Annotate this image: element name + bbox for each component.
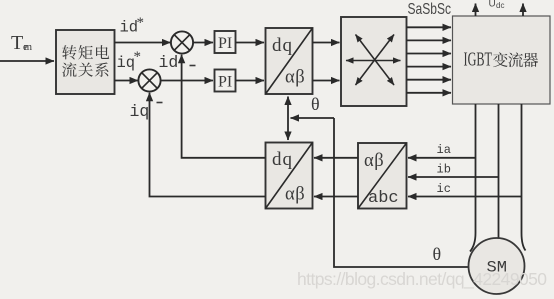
block M1 SVPWM modulator with star arrows	[341, 17, 407, 106]
wire iq feedback from dq block to S2	[150, 93, 266, 197]
wire gate signal 1 SVPWM to IGBT	[407, 26, 452, 28]
svg-text:U: U	[489, 0, 496, 10]
svg-text:SaSbSc: SaSbSc	[408, 1, 452, 18]
summing junction S2 (iq)	[138, 69, 160, 91]
svg-text:abc: abc	[368, 189, 399, 208]
wire dq/ab to SVPWM row1	[313, 42, 340, 44]
minus sign at S2	[157, 102, 163, 104]
svg-text:PI: PI	[218, 35, 232, 52]
block PI2 current regulator	[215, 70, 236, 92]
wire Tem input arrow into torque block	[0, 60, 54, 62]
svg-text:T: T	[11, 32, 23, 54]
wire gate signal 4 SVPWM to IGBT	[407, 66, 452, 68]
svg-text:iq: iq	[117, 54, 136, 72]
wire ic current feedback	[408, 196, 522, 198]
block T2 alpha-beta to dq transform	[266, 143, 313, 209]
block T3 alpha-beta to abc transform	[358, 143, 407, 209]
svg-text:θ: θ	[311, 94, 320, 114]
wire dq/ab to SVPWM row2	[313, 80, 340, 82]
svg-text:ic: ic	[437, 182, 451, 196]
svg-text:ia: ia	[437, 143, 451, 157]
wire theta from motor to dq transforms	[334, 118, 469, 267]
svg-text:αβ: αβ	[285, 68, 305, 88]
wire gate signal 6 SVPWM to IGBT	[407, 92, 452, 94]
wire theta into both dq transforms (double arrow)	[287, 97, 289, 141]
wire ia current feedback	[408, 157, 476, 159]
wire Udc dc-link arrow right	[522, 4, 524, 17]
svg-text:id: id	[159, 53, 179, 72]
wire S2 to PI2	[160, 80, 213, 82]
svg-text:dq: dq	[272, 149, 293, 170]
svg-text:IGBT: IGBT	[464, 50, 493, 71]
block PI1 current regulator	[215, 31, 236, 53]
wire gate signal 3 SVPWM to IGBT	[407, 53, 452, 55]
wire id feedback from dq block to S1	[182, 55, 266, 158]
wire PI1 to dq/ab transform	[236, 42, 265, 44]
block U2 IGBT converter IGBT变流器	[453, 16, 551, 104]
svg-text:PI: PI	[218, 73, 232, 90]
block T1 dq to alpha-beta transform	[266, 28, 313, 94]
block U1 torque-current relation 转矩电流关系	[56, 30, 115, 94]
wire ib current feedback	[408, 176, 499, 178]
wire beta feedback to dq block	[314, 196, 358, 198]
wire Udc dc-link arrow left	[475, 4, 477, 17]
wire phase c IGBT to motor	[522, 104, 526, 251]
svg-text:*: *	[134, 49, 142, 65]
wire phase b IGBT to motor	[498, 104, 500, 239]
svg-text:em: em	[23, 42, 32, 53]
summing junction S1 (id)	[171, 31, 193, 53]
minus sign at S1	[190, 65, 196, 67]
wire gate signal 2 SVPWM to IGBT	[407, 39, 452, 41]
wire PI2 to dq/ab transform	[236, 80, 265, 82]
svg-text:dq: dq	[272, 35, 293, 56]
svg-text:αβ: αβ	[285, 185, 305, 205]
svg-text:https://blog.csdn.net/qq_42249: https://blog.csdn.net/qq_42249050	[297, 269, 547, 290]
svg-text:id: id	[120, 19, 139, 37]
svg-text:αβ: αβ	[364, 151, 384, 171]
svg-text:θ: θ	[433, 244, 442, 264]
wire alpha feedback to dq block	[314, 157, 358, 159]
svg-text:*: *	[137, 15, 145, 31]
wire gate signal 5 SVPWM to IGBT	[407, 79, 452, 81]
svg-text:iq: iq	[130, 102, 150, 121]
motor SM synchronous machine	[469, 238, 525, 294]
wire phase a IGBT to motor	[470, 104, 476, 252]
wire S1 to PI1	[193, 42, 213, 44]
wire iq* from torque block to summing junction	[115, 80, 139, 82]
svg-text:dc: dc	[496, 1, 504, 10]
wire id* from torque block to summing junction	[115, 42, 171, 44]
svg-text:ib: ib	[437, 163, 451, 177]
wire theta horizontal into double arrow	[291, 117, 335, 119]
